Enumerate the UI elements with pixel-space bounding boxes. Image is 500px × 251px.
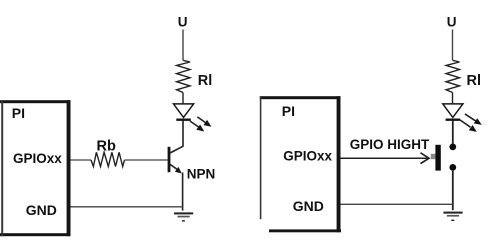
wire LED up to resistor Rl (right) <box>452 93 454 105</box>
wire Rl up to U (right) <box>452 30 454 61</box>
svg-text:U: U <box>178 14 188 29</box>
LED D2 triangle <box>443 104 463 118</box>
wire GPIOxx to Rb <box>71 159 92 161</box>
transistor Q1 emitter arrowhead <box>175 167 182 174</box>
resistor Rb <box>91 152 125 166</box>
svg-text:GND: GND <box>293 198 324 214</box>
PI box (right) <box>260 96 341 232</box>
wire lower contact down to ground <box>452 171 454 211</box>
LED D1 cathode bar <box>176 118 191 120</box>
LED D2 light arrow lower <box>460 120 477 132</box>
svg-text:U: U <box>447 14 457 29</box>
wire Rb to base <box>125 159 168 161</box>
svg-text:Rl: Rl <box>467 73 482 89</box>
LED D1 light arrow upper <box>197 117 211 127</box>
LED D2 cathode bar <box>446 118 461 120</box>
svg-text:GND: GND <box>26 202 57 218</box>
wire LED up to resistor Rl <box>182 93 184 105</box>
wire emitter down <box>182 173 184 211</box>
wire GND pin to ground node (right) <box>341 203 453 205</box>
wire LED down to upper contact <box>452 120 454 144</box>
LED D2 light arrow upper <box>465 114 482 125</box>
resistor Rl <box>177 60 190 92</box>
LED D1 triangle <box>174 104 194 118</box>
wire GND pin to emitter node <box>71 206 183 208</box>
switch SW1 upper contact dot <box>449 144 456 151</box>
switch SW1 lower contact dot <box>449 164 456 171</box>
svg-text:Rl: Rl <box>198 73 213 89</box>
transistor Q1 emitter diagonal <box>170 164 180 171</box>
wire collector up to LED <box>182 120 184 147</box>
wire GPIOxx to switch with arrow <box>341 153 430 164</box>
switch actuator nub <box>431 154 436 159</box>
svg-text:PI: PI <box>282 103 295 119</box>
resistor Rl (right) <box>446 60 459 92</box>
transistor Q1 collector diagonal <box>170 146 183 153</box>
switch SW1 actuator bar <box>435 145 440 171</box>
ground symbol (left) <box>174 212 193 221</box>
LED D1 light arrow lower <box>190 121 204 132</box>
wire Rl up to U <box>182 30 184 61</box>
svg-text:Rb: Rb <box>97 139 116 155</box>
svg-text:PI: PI <box>12 105 25 121</box>
ground symbol (right) <box>443 212 462 221</box>
svg-text:GPIOxx: GPIOxx <box>283 148 332 163</box>
svg-text:GPIOxx: GPIOxx <box>13 151 62 166</box>
PI box (left) <box>0 100 71 236</box>
transistor Q1 base bar <box>168 147 171 172</box>
svg-text:NPN: NPN <box>187 166 216 181</box>
svg-text:GPIO HIGHT: GPIO HIGHT <box>350 137 430 152</box>
